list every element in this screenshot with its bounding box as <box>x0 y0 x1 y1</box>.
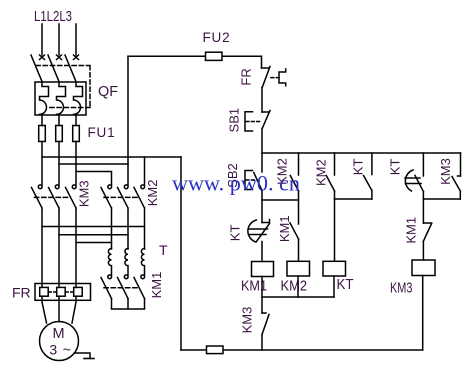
svg-text:KM1: KM1 <box>149 272 164 299</box>
wire jumper C KM3out3 to KM2out1 <box>76 242 112 244</box>
wire KM3 pole2 out to FR <box>58 208 60 287</box>
wire SB1 to bus1 <box>261 129 263 154</box>
wire control bottom bus <box>181 349 423 351</box>
contact KM1 aux left branch wire <box>298 200 300 224</box>
contact KM1 aux right blade <box>423 224 431 242</box>
svg-text:KM3: KM3 <box>240 307 255 334</box>
contact KM2 aux2 branch wire <box>334 153 336 175</box>
contact KM3 aux branch wire <box>460 153 462 176</box>
breaker QF release element pole3 <box>74 82 83 114</box>
button SB2 actuator bracket <box>245 171 253 190</box>
contact KM1 aux right hook <box>423 222 431 224</box>
contact KM1 aux left blade <box>290 223 299 239</box>
contactor KM3 pole2 <box>55 185 59 189</box>
svg-text:M: M <box>53 326 65 342</box>
wire jumper phase2 to control feed <box>59 163 128 165</box>
wire KM3 pole1 out to FR <box>41 208 43 287</box>
wire KT coil bottom <box>333 276 335 297</box>
svg-text:FU2: FU2 <box>203 30 231 45</box>
contact KM2 aux2 blade <box>326 176 334 192</box>
fuse FU2 <box>206 52 223 60</box>
wire KM2 pole3 out <box>144 208 146 249</box>
contactor KM1 linkage dashed <box>104 287 138 289</box>
contactor KM1 pole3 <box>141 275 145 279</box>
contact KM3 NC blade <box>262 315 269 335</box>
svg-text:KM1: KM1 <box>277 215 292 242</box>
svg-text:KM3: KM3 <box>438 158 453 185</box>
svg-text:KM1: KM1 <box>241 278 267 295</box>
svg-text:FR: FR <box>12 285 31 301</box>
ground bar <box>84 358 94 360</box>
wire down to FR contact <box>261 56 263 68</box>
breaker QF blade pole3 <box>65 55 76 82</box>
wire KM3 pole3 out to FR <box>75 208 77 287</box>
svg-text:3 ~: 3 ~ <box>49 342 71 358</box>
breaker QF blade pole1 <box>31 55 42 82</box>
svg-text:www. pw0. cn: www. pw0. cn <box>172 171 300 196</box>
svg-text:KT: KT <box>337 276 354 293</box>
contact KT delayed NO chord2 <box>406 183 422 185</box>
wire jumper phase1 to control left rail and KM2 pole3 <box>42 156 181 158</box>
contact KT delayed NC branch wire <box>261 200 263 223</box>
svg-text:KM1: KM1 <box>404 217 419 244</box>
wire KM1 coil bottom <box>261 277 263 298</box>
svg-text:SB1: SB1 <box>227 108 242 133</box>
wire QF to FU1 x3 <box>41 115 43 126</box>
relay FR heater element3 <box>74 287 83 296</box>
wire FR out3 to motor <box>72 296 76 323</box>
wire control bus5 <box>423 198 460 200</box>
wire control bus3 <box>335 198 372 200</box>
contact KT delayed NO cup arc <box>405 170 413 191</box>
wire KM2 pole2 out <box>127 208 129 249</box>
button SB2 NO blade <box>254 173 262 191</box>
wire jumper A KM3out1 to KM2out3 <box>42 226 145 228</box>
contactor KM1 pole2 <box>124 275 128 279</box>
svg-text:KT: KT <box>228 225 243 242</box>
wire L1 drop <box>41 24 43 55</box>
contactor KM2 pole1 <box>108 185 112 189</box>
wire jumper B KM3out2 to KM2out2 <box>59 234 128 236</box>
contactor KM3 pole3 <box>72 185 76 189</box>
breaker QF blade pole2 <box>48 55 59 82</box>
contact KM3 NC branch wire <box>261 297 263 313</box>
contact KT delayed NC chord1 <box>250 228 268 230</box>
button SB1 actuator dashed <box>246 121 262 123</box>
breaker QF trip linkage dashed <box>36 66 90 108</box>
transformer T coil2 <box>125 249 128 275</box>
contactor KM2 pole2 <box>124 185 128 189</box>
breaker QF release element pole2 <box>57 82 66 114</box>
svg-text:FU1: FU1 <box>88 125 116 140</box>
breaker QF release element pole1 <box>40 82 49 114</box>
button SB2 branch wire <box>261 153 263 172</box>
contact KT delayed NC hook <box>262 220 270 223</box>
motor M circle <box>40 322 79 361</box>
breaker QF contact cross pole2 <box>57 55 62 60</box>
wire KM1 star bus <box>112 299 145 310</box>
wire phase3 FU1 to KM3 pole3 <box>75 142 77 186</box>
svg-text:KT: KT <box>388 159 403 176</box>
wire KM2 pole3 feed drop <box>144 157 146 185</box>
relay FR heater element2 <box>57 287 65 296</box>
contactor KM3 linkage dashed <box>35 196 70 198</box>
contact KT delayed NO branch wire <box>422 153 424 176</box>
svg-text:KM2: KM2 <box>314 159 329 186</box>
contact KT aux branch wire <box>371 153 373 175</box>
relay FR heater box <box>35 284 91 301</box>
fuse FU1 pole2 <box>56 126 63 142</box>
contact KT delayed NO blade <box>415 176 423 192</box>
wire phase2 FU1 to KM3 pole2 <box>58 142 60 186</box>
svg-text:KM2: KM2 <box>281 278 308 295</box>
wire KM3 NC to bottom bus <box>261 335 263 351</box>
svg-text:FR: FR <box>239 68 254 85</box>
ground wire <box>75 353 91 358</box>
contact KM3 aux tick <box>458 175 461 177</box>
wire SB2 to bus2 <box>261 191 263 201</box>
coil KT <box>323 261 346 276</box>
contactor KM2 pole3 <box>141 185 145 189</box>
contactor KM2 linkage dashed <box>104 196 138 198</box>
wire KT delayed to KM1 coil <box>261 242 263 262</box>
wire jumper phase3 to KM2 pole1 <box>76 172 112 186</box>
svg-text:KM3: KM3 <box>77 180 92 207</box>
wire KM2 aux1 to bus2 <box>298 191 300 200</box>
coil KM3 <box>412 260 435 276</box>
relay FR heater element1 <box>40 287 49 296</box>
wire bus3 to KT coil <box>334 199 336 261</box>
contact KM2 aux1 branch wire <box>298 153 300 175</box>
breaker QF box <box>35 82 86 115</box>
wire phase1 FU1 to KM3 pole1 <box>41 142 43 186</box>
contact KT delayed NC chord2 <box>250 234 266 236</box>
wire L2 drop <box>58 24 60 55</box>
svg-text:KM2: KM2 <box>145 180 160 207</box>
contactor KM1 pole1 <box>108 275 112 279</box>
contact KT delayed NC blade <box>257 224 270 242</box>
button SB1 actuator bracket <box>245 112 253 131</box>
wire KM3 aux to bus5 <box>459 191 461 199</box>
relay FR heater dashed link <box>48 291 73 293</box>
contact FR NC blade <box>262 67 270 88</box>
button SB1 NC tick <box>262 111 269 113</box>
svg-text:KT: KT <box>351 159 366 176</box>
wire KM2 coil bottom <box>297 276 299 297</box>
wire KT aux to bus3 <box>371 191 373 200</box>
button SB2 actuator dashed <box>246 179 256 181</box>
wire control bus2 <box>262 199 299 201</box>
contact KM3 NC tick <box>262 312 266 314</box>
wire KM2 aux2 to bus3 <box>334 191 336 199</box>
svg-text:T: T <box>159 242 168 258</box>
wire FR out1 to motor <box>42 296 47 323</box>
fuse FU1 pole1 <box>39 126 46 142</box>
wire control top <box>128 55 262 57</box>
fuse FU2 bottom <box>207 346 224 354</box>
wire KM1 aux right to KM3 coil <box>422 241 424 260</box>
wire control feed vertical and KM2 pole2 feed <box>127 56 129 185</box>
contact KM3 aux blade <box>452 177 460 192</box>
svg-text:L1L2L3: L1L2L3 <box>34 8 72 25</box>
relay FR actuator dashed <box>271 77 279 79</box>
wire FR to SB1 <box>261 88 263 113</box>
svg-text:QF: QF <box>98 84 118 100</box>
coil KM1 <box>252 262 274 277</box>
wire control bus1 <box>262 152 461 154</box>
wire KM1 aux to KM2 coil <box>298 239 300 261</box>
wire KM2 pole1 out <box>111 208 113 249</box>
contact KM2 aux1 blade <box>290 176 298 192</box>
contact KT delayed NO chord1 <box>405 177 420 179</box>
transformer T coil3 <box>141 249 144 275</box>
button SB1 NC blade <box>262 111 270 129</box>
breaker QF contact cross pole1 <box>40 55 45 60</box>
wire FR out2 to motor <box>58 296 60 321</box>
contact FR NC tick <box>262 67 269 69</box>
wire L3 drop <box>75 24 77 55</box>
wire control bus4 <box>262 296 334 298</box>
svg-text:KM3: KM3 <box>390 279 413 296</box>
contact KM1 aux right branch wire <box>422 199 424 223</box>
wire KM3 coil to bottom bus <box>422 276 424 351</box>
wire KT delayed NO to bus5 <box>422 192 424 200</box>
coil KM2 <box>287 261 310 276</box>
contact KT delayed NC cup arc <box>248 220 256 242</box>
wire control left rail <box>180 157 182 350</box>
breaker QF contact cross pole3 <box>74 55 79 60</box>
transformer T coil1 <box>108 249 111 275</box>
contact KT aux blade <box>364 176 372 191</box>
contactor KM3 pole1 <box>38 185 42 189</box>
relay FR actuator bracket <box>279 69 286 86</box>
fuse FU1 pole3 <box>73 126 80 142</box>
